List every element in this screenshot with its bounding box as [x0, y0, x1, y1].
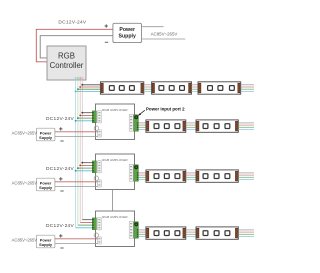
wire gray amplifier U2 output — [138, 172, 146, 174]
amplifier U2 wire loop — [94, 176, 98, 180]
wire gray branch to amplifier 1 — [82, 112, 92, 114]
amplifier U2 power connector — [98, 180, 102, 187]
power supply box (top) — [113, 23, 142, 42]
wire green amplifier U3 output — [138, 233, 146, 235]
amplifier U3 left connector — [98, 218, 102, 230]
label + (row 1) — [59, 127, 62, 130]
RGB controller box — [47, 46, 86, 80]
svg-text:Supply: Supply — [39, 135, 53, 140]
wire red branch to strip1 — [80, 86, 101, 88]
svg-text:Supply: Supply — [39, 242, 53, 247]
AC wire top — [142, 26, 164, 28]
wire blue branch to amplifier 1 — [76, 120, 93, 122]
wire green branch to amplifier 2 — [78, 167, 93, 169]
bus wire blue vertical — [75, 80, 77, 228]
svg-text:DC12V-24V: DC12V-24V — [46, 116, 75, 122]
wire blue amplifier U2 output — [138, 179, 146, 181]
wire gray power supply 1 to amplifier — [55, 136, 98, 138]
LED strip 3 segment 2 — [196, 170, 238, 182]
svg-text:RGB AMPLIFIER: RGB AMPLIFIER — [102, 158, 128, 162]
amplifier U3 right output terminal — [134, 222, 139, 238]
wire gray power supply 2 to amplifier — [55, 186, 98, 188]
strip 2 link wires — [186, 123, 196, 130]
LED strip 2 segment 1 — [146, 120, 186, 132]
amplifier U1 right output terminal — [134, 115, 139, 131]
wire red branch to amplifier 3 — [80, 221, 92, 223]
power supply box (row 1) — [36, 128, 55, 141]
power supply box (row 2) — [36, 178, 55, 191]
arrow to power input port 2 — [138, 110, 145, 116]
LED strip 1 segment A — [100, 82, 143, 94]
power supply box (row 3) — [36, 235, 55, 248]
junction dot blue strip1 — [75, 90, 77, 92]
wire red amplifier U2 output — [138, 174, 146, 176]
wire green branch to strip1 — [78, 88, 101, 90]
junction dot red amplifier 1 — [79, 115, 81, 117]
amplifier U1 left connector — [98, 111, 102, 123]
wire red amplifier U1 output — [138, 124, 146, 126]
wire gray power supply 3 to amplifier — [55, 243, 98, 245]
wire red branch to amplifier 1 — [80, 114, 92, 116]
junction dot green strip1 — [77, 88, 79, 90]
LED strip 1 segment B — [152, 82, 192, 94]
strip 3 link wires — [186, 173, 196, 180]
label - (row 2) — [60, 190, 63, 192]
amplifier U3 right connector — [129, 221, 133, 238]
label - (row 1) — [60, 140, 63, 142]
wire green amplifier U2 output — [138, 176, 146, 178]
svg-text:Controller: Controller — [50, 61, 84, 70]
AC wire bottom — [142, 38, 186, 40]
svg-text:Power input port 2: Power input port 2 — [146, 107, 185, 112]
wire green branch to amplifier 3 — [78, 224, 93, 226]
wire gray branch to strip1 — [82, 84, 101, 86]
amplifier U3 box — [96, 211, 135, 247]
wire red power supply 1 to amplifier — [55, 131, 98, 133]
wire gray branch to amplifier 2 — [82, 162, 92, 164]
strip 4 link wires — [186, 230, 196, 237]
LED strip 1 segment C — [198, 82, 241, 94]
LED strip 3 segment 1 — [146, 170, 186, 182]
junction dot gray amplifier 1 — [81, 112, 83, 114]
svg-text:DC12V-24V: DC12V-24V — [58, 20, 87, 26]
strip 2 tail wires — [238, 123, 254, 130]
wire red power supply 2 to amplifier — [55, 181, 98, 183]
strip 4 tail wires — [238, 230, 254, 237]
amplifier U2 box — [96, 154, 135, 190]
wire gray branch to amplifier 3 — [82, 219, 92, 221]
svg-text:AC85V~265V: AC85V~265V — [12, 131, 38, 136]
amplifier U3 left input terminal — [92, 218, 96, 230]
bus wire green vertical — [77, 80, 79, 225]
wire red: power supply + to RGB controller — [36, 29, 113, 62]
amplifier U1 wire loop — [94, 126, 98, 130]
amplifier U1 right connector — [129, 114, 133, 131]
strip1 link wires A-B — [144, 85, 152, 92]
controller output pads — [75, 77, 83, 80]
wire link amplifier U2 to U3 — [112, 190, 114, 212]
wire blue amplifier U3 output — [138, 236, 146, 238]
bus wire gray vertical — [81, 80, 83, 220]
label - (top power supply) — [105, 41, 108, 43]
wire gray amplifier U1 output — [138, 122, 146, 124]
junction dot red strip1 — [79, 86, 81, 88]
junction dot gray amplifier 2 — [81, 162, 83, 164]
svg-text:DC12V-24V: DC12V-24V — [46, 223, 75, 229]
LED strip 2 segment 2 — [196, 120, 238, 132]
svg-text:RGB: RGB — [58, 52, 75, 61]
junction dot gray strip1 — [81, 84, 83, 86]
amplifier U2 right connector — [129, 164, 133, 181]
svg-text:AC85V~265V: AC85V~265V — [12, 238, 38, 243]
junction dot red amplifier 2 — [79, 165, 81, 167]
junction dot green amplifier 2 — [77, 167, 79, 169]
svg-text:Supply: Supply — [119, 34, 136, 40]
wire green amplifier U1 output — [138, 126, 146, 128]
LED strip 4 segment 2 — [196, 227, 238, 239]
amplifier U2 left connector — [98, 161, 102, 173]
label - (row 3) — [60, 247, 63, 249]
amplifier U3 wire loop — [94, 233, 98, 237]
wire gray amplifier U3 output — [138, 229, 146, 231]
amplifier U1 power connector — [98, 130, 102, 137]
junction dot green amplifier 1 — [77, 117, 79, 119]
svg-text:RGB AMPLIFIER: RGB AMPLIFIER — [102, 108, 128, 112]
wire blue branch to amplifier 3 — [76, 227, 93, 229]
amplifier U2 right output terminal — [134, 165, 139, 181]
svg-text:DC12V-24V: DC12V-24V — [46, 166, 75, 172]
svg-text:AC85V~265V: AC85V~265V — [151, 32, 178, 37]
label + (top power supply) — [105, 24, 108, 27]
strip 3 tail wires — [238, 173, 254, 180]
junction dot blue amplifier 2 — [75, 170, 77, 172]
svg-text:AC85V~265V: AC85V~265V — [12, 181, 38, 186]
wire gray: power supply - to RGB controller — [40, 36, 113, 58]
wire green branch to amplifier 1 — [78, 117, 93, 119]
strip1 tail wires — [241, 85, 254, 92]
label + (row 3) — [59, 234, 62, 237]
wire red branch to amplifier 2 — [80, 164, 92, 166]
strip1 link wires B-C — [192, 85, 199, 92]
wire blue branch to amplifier 2 — [76, 170, 93, 172]
wire blue branch to strip1 — [76, 90, 101, 92]
svg-text:RGB AMPLIFIER: RGB AMPLIFIER — [102, 215, 128, 219]
bus wire red vertical — [79, 80, 81, 223]
junction dot blue amplifier 1 — [75, 120, 77, 122]
amplifier U1 box — [96, 104, 135, 140]
amplifier U3 power connector — [98, 237, 102, 244]
amplifier U1 left input terminal — [92, 111, 96, 123]
svg-text:Power: Power — [119, 27, 135, 33]
wire red amplifier U3 output — [138, 231, 146, 233]
LED strip 4 segment 1 — [146, 227, 186, 239]
label + (row 2) — [59, 177, 62, 180]
amplifier U2 left input terminal — [92, 161, 96, 173]
svg-text:Supply: Supply — [39, 185, 53, 190]
wire blue amplifier U1 output — [138, 129, 146, 131]
wire red power supply 3 to amplifier — [55, 238, 98, 240]
